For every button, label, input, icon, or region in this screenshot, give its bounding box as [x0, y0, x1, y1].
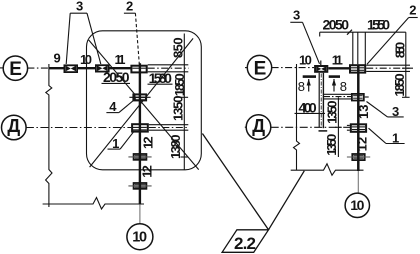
bottom tie line with break symbol (right): [291, 164, 364, 175]
axis Д centerline (left): [26, 127, 131, 129]
svg-text:9: 9: [54, 51, 61, 66]
connection node 9 (bowtie plate) on axis Е: [64, 65, 77, 72]
column member on grid 10 (left, thick): [139, 63, 141, 204]
grid bubble row Д (right): [246, 115, 271, 140]
section mark 8 (left arrow): [303, 75, 316, 91]
svg-text:8: 8: [340, 79, 347, 94]
axis Е centerline (left): [27, 67, 49, 69]
svg-text:2: 2: [126, 0, 133, 14]
svg-text:12: 12: [355, 137, 370, 152]
axis Е stub left of bubble (right): [245, 67, 247, 69]
svg-text:2050: 2050: [323, 16, 350, 32]
detail callout 2.2 parallelogram with two reference lines: [202, 134, 304, 253]
splice joint 12 (lower): [128, 183, 151, 189]
svg-text:1380: 1380: [168, 135, 183, 160]
axis Д stub left of bubble (right): [245, 126, 247, 128]
leader for label 2 (right): [367, 18, 418, 65]
svg-text:2: 2: [409, 2, 416, 17]
svg-text:1550: 1550: [367, 16, 390, 32]
splice joint 12 (right): [347, 154, 370, 160]
grid bubble row Д (left): [2, 115, 27, 140]
svg-text:3: 3: [392, 104, 399, 119]
svg-text:Д: Д: [7, 116, 20, 136]
diagonal brace TL-BR: [89, 40, 199, 170]
diagonal brace TR-BL: [90, 38, 194, 167]
axis Е stub at page edge (left): [0, 67, 3, 69]
svg-text:1850: 1850: [172, 73, 187, 96]
thin link to grid bubble 10 (left): [139, 204, 141, 223]
node 2 (gusset box) on axis Е right: [350, 65, 365, 72]
leader for label 4: [106, 100, 134, 113]
leader for label 1 (right): [369, 128, 405, 143]
wall line with break symbol (right): [294, 64, 300, 170]
svg-text:1580: 1580: [149, 70, 173, 86]
svg-text:2050: 2050: [103, 69, 130, 85]
grid bubble row Е (right): [247, 55, 271, 79]
svg-text:1: 1: [112, 136, 119, 151]
extension lines to node 2: [352, 32, 354, 66]
svg-text:850: 850: [171, 37, 186, 58]
svg-text:1850: 1850: [392, 73, 407, 96]
grid bubble row Е (left): [3, 56, 27, 80]
horizontal member to node 3: [324, 93, 351, 95]
grid bubble 10 (right): [345, 193, 369, 217]
leader for label 3 (left): [66, 13, 101, 64]
svg-text:11: 11: [115, 52, 126, 67]
beam on axis Е between nodes (right, thick): [328, 67, 349, 69]
leader for label 2 (left, dashed): [124, 13, 139, 64]
element 4 (plate stack block): [129, 93, 150, 101]
beam flange lines right of element 1: [149, 125, 189, 131]
splice joint 12 (upper): [128, 154, 151, 160]
axis Д centerline (right): [271, 126, 350, 128]
svg-text:11: 11: [332, 52, 343, 67]
svg-text:850: 850: [393, 42, 408, 58]
svg-text:Е: Е: [9, 59, 22, 80]
beam flange lines right of node 2: [366, 64, 410, 66]
node 1 (gusset box) on axis Д right: [347, 124, 366, 132]
connection node 11 (gusset box) on axis Е: [131, 66, 146, 73]
dimension line vertical (left drawing): [181, 34, 189, 170]
svg-text:12: 12: [140, 136, 155, 149]
leader for label 1 (left): [108, 132, 134, 149]
column member on grid 10 (right, thick): [357, 64, 360, 171]
wall line grid 9 with two break symbols: [46, 64, 52, 207]
svg-text:10: 10: [80, 52, 92, 67]
svg-text:12: 12: [139, 165, 154, 178]
leader for label 3 (right top): [290, 22, 319, 64]
dimension line under 2050: [102, 82, 131, 84]
stub above bowtie node (right): [320, 61, 322, 66]
connection node (bowtie plate) on axis Е right: [315, 66, 327, 72]
beam on axis Е (thick member): [49, 67, 131, 69]
svg-text:10: 10: [350, 197, 364, 213]
node 3 (gusset box): [352, 94, 369, 101]
grid bubble 10 (left): [127, 224, 153, 250]
svg-text:400: 400: [299, 99, 317, 115]
leader for label 3 (right side): [367, 102, 404, 117]
top dimension line 2050/1550: [320, 31, 406, 33]
svg-text:1350: 1350: [325, 101, 340, 124]
svg-text:3: 3: [76, 0, 83, 14]
dimension line under 1580: [148, 83, 173, 85]
element 1 (gusset box) on axis Д: [132, 124, 148, 131]
dimension line 400: [295, 112, 326, 114]
svg-text:10: 10: [132, 229, 147, 245]
svg-text:1350: 1350: [324, 134, 339, 156]
svg-text:4: 4: [109, 99, 117, 114]
svg-text:2.2: 2.2: [234, 234, 256, 253]
connection node 10 (bowtie plate) on axis Е: [96, 65, 109, 71]
svg-text:Д: Д: [252, 116, 265, 136]
svg-text:3: 3: [293, 8, 300, 23]
rounded detail boundary: [87, 31, 202, 170]
dimension line vertical 850/1850 (right): [405, 32, 407, 97]
svg-text:1350: 1350: [170, 96, 185, 122]
bottom tie line with break symbol (left): [43, 198, 144, 210]
section mark 8 (right arrow): [329, 75, 340, 91]
post base foot at axis Д: [319, 130, 328, 132]
post member double line (flanges): [318, 73, 320, 128]
dimension line vertical 1350/1350: [337, 97, 339, 157]
beam flange lines right of node 11: [148, 65, 189, 72]
svg-text:10: 10: [299, 52, 312, 67]
svg-text:1: 1: [392, 130, 399, 145]
thin link to grid bubble 10 (right): [357, 171, 359, 193]
svg-text:8: 8: [298, 79, 305, 94]
svg-text:13: 13: [356, 105, 371, 120]
svg-text:Е: Е: [254, 58, 267, 79]
axis Е centerline (right): [272, 67, 315, 69]
